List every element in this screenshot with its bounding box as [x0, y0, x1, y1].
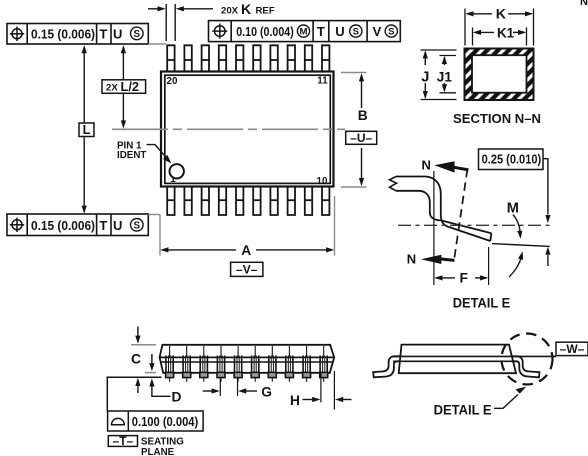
pin 10 lead (bottom row): [322, 187, 329, 216]
lead foot end cap: [490, 233, 491, 241]
package body (side profile): [399, 345, 516, 374]
PIN 1 IDENT leader arrow: [147, 145, 168, 159]
svg-text:–V–: –V–: [236, 262, 258, 276]
dimension L line: [83, 48, 85, 123]
svg-text:N: N: [407, 251, 416, 266]
seating plane line: [107, 376, 162, 378]
lead inner edge: [396, 191, 491, 233]
dimension H extension lines: [320, 373, 322, 403]
side view pin 8: [285, 346, 293, 382]
feature control frame FCF3 bottom-left: [7, 214, 148, 236]
svg-text:H: H: [290, 393, 300, 408]
svg-text:K: K: [496, 7, 507, 23]
package body (front view): [160, 345, 335, 373]
connector line FCF1 to K ref extension: [148, 43, 166, 45]
svg-text:IDENT: IDENT: [117, 150, 146, 161]
svg-text:10: 10: [317, 176, 328, 187]
side view pin 9: [303, 346, 311, 382]
svg-text:0.15 (0.006): 0.15 (0.006): [31, 27, 95, 42]
standoff upper arrow: [151, 354, 153, 364]
svg-text:0.25 (0.010): 0.25 (0.010): [482, 152, 542, 167]
svg-text:M: M: [507, 201, 519, 217]
dimension G right arrow: [245, 390, 257, 392]
-U- datum box: [346, 131, 377, 144]
section cut line N-N (dashed): [454, 169, 467, 261]
lead cross-section hatched ring: [465, 49, 534, 101]
pin 11 lead (top row): [322, 45, 329, 71]
right gull-wing lead: [510, 356, 540, 377]
side view pin 6: [251, 346, 259, 382]
pin 8 lead (bottom row): [288, 187, 295, 216]
svg-text:M: M: [300, 27, 308, 38]
dimension A extension lines: [159, 215, 161, 256]
svg-text:V: V: [373, 24, 382, 39]
-W- datum box: [556, 342, 588, 355]
side view pin 3: [200, 346, 208, 382]
svg-text:DETAIL E: DETAIL E: [453, 296, 511, 311]
dimension F extension lines: [433, 171, 435, 285]
lead outline (gull-wing bend, detail): [390, 177, 492, 242]
svg-text:0.10 (0.004): 0.10 (0.004): [236, 24, 294, 39]
side view pin 7: [268, 346, 276, 382]
dimension H right arrow: [340, 399, 352, 401]
feature control frame FCF2 top-middle: [209, 21, 401, 42]
pin 6 lead (bottom row): [253, 187, 260, 216]
side view pin 5: [234, 346, 242, 382]
FCF2 position symbol: [212, 24, 227, 39]
FCF3 position symbol: [10, 218, 24, 232]
pin 1 lead (bottom row): [167, 187, 174, 216]
svg-text:S: S: [134, 220, 141, 231]
pin 14 lead (top row): [270, 45, 277, 71]
body parting line upper: [160, 356, 335, 358]
lead outer edge: [396, 177, 490, 242]
svg-text:F: F: [460, 271, 468, 286]
dimension G extension lines: [219, 378, 221, 397]
body top extension line: [131, 344, 156, 346]
L label box: [79, 123, 94, 137]
pin 19 lead (top row): [184, 45, 191, 71]
svg-text:–U–: –U–: [350, 131, 372, 145]
dimension D lower arrow with leader: [152, 387, 171, 397]
svg-text:A: A: [241, 243, 251, 258]
svg-text:N: N: [580, 0, 588, 8]
pin 5 lead (bottom row): [236, 187, 243, 216]
svg-text:–W–: –W–: [560, 342, 585, 356]
pin 13 lead (top row): [288, 45, 295, 71]
2X L/2 label box: [102, 80, 146, 94]
-V- datum box: [231, 262, 263, 276]
svg-text:S: S: [134, 29, 141, 40]
svg-text:N: N: [422, 157, 431, 172]
detail E dashed circle: [502, 334, 553, 385]
svg-text:D: D: [172, 390, 182, 405]
pin 15 lead (top row): [253, 45, 260, 71]
svg-text:SEATING: SEATING: [141, 437, 184, 448]
FCF2 S modifier 2: [385, 25, 397, 37]
connector line FCF3 to A extension: [148, 214, 160, 216]
side view pin 1: [166, 346, 174, 382]
dimension H left arrow: [303, 399, 314, 401]
FCF3 S modifier: [131, 219, 144, 232]
svg-text:K1: K1: [497, 26, 515, 41]
N arrow bottom: [440, 259, 455, 261]
svg-text:DETAIL E: DETAIL E: [434, 402, 492, 417]
dimension J extension lines: [421, 49, 457, 51]
lead frame line lower: [393, 360, 518, 362]
datum T vertical connector: [106, 377, 108, 411]
svg-text:U: U: [113, 218, 122, 233]
svg-text:T: T: [99, 27, 107, 42]
svg-text:T: T: [99, 218, 107, 233]
svg-text:–T–: –T–: [113, 434, 134, 448]
svg-text:S: S: [388, 27, 395, 38]
bottom pins of package: [167, 187, 329, 216]
M angle leader arcs: [513, 215, 520, 234]
dimension K1 line with arrows: [475, 31, 495, 33]
dimension J1 line with arrows: [443, 58, 445, 66]
tilted foot plane line: [492, 244, 550, 247]
N arrow top: [452, 167, 469, 170]
0.25 (0.010) dimension box: [479, 149, 544, 170]
svg-text:G: G: [261, 384, 272, 399]
dimension B extension lines: [341, 72, 367, 74]
dimension K extension lines: [464, 9, 466, 46]
lead break-off jagged edge: [390, 177, 397, 191]
centerline of package (datum): [112, 128, 345, 130]
dimension C upper arrow: [137, 327, 139, 337]
svg-text:L/2: L/2: [121, 79, 140, 94]
left gull-wing lead: [373, 356, 402, 377]
side view pin 10: [320, 346, 328, 382]
pin 18 lead (top row): [202, 45, 209, 71]
pin 2 lead (bottom row): [184, 187, 191, 216]
side view pin 4: [217, 346, 225, 382]
pin 17 lead (top row): [219, 45, 226, 71]
svg-text:U: U: [113, 27, 122, 42]
pin tip extension line: [145, 372, 156, 374]
package body outline (top view): [161, 72, 334, 187]
pin 16 lead (top row): [236, 45, 243, 71]
svg-text:SECTION N–N: SECTION N–N: [453, 111, 541, 126]
FCF2 S modifier 1: [350, 25, 362, 37]
pin 7 lead (bottom row): [270, 187, 277, 216]
flatness symbol: [112, 418, 125, 424]
svg-text:11: 11: [317, 76, 328, 87]
svg-text:S: S: [353, 27, 360, 38]
svg-text:B: B: [358, 108, 368, 123]
pin 12 lead (top row): [305, 45, 312, 71]
svg-text:20: 20: [167, 76, 178, 87]
svg-text:J1: J1: [437, 70, 453, 85]
20X K REF right arrow: [183, 8, 213, 10]
flatness control frame: [108, 411, 204, 431]
svg-text:REF: REF: [256, 6, 275, 17]
body parting line lower: [161, 361, 334, 363]
svg-text:C: C: [131, 351, 141, 366]
lead frame line upper: [393, 355, 556, 357]
svg-text:20X: 20X: [221, 6, 239, 17]
pin 1 ident circle: [170, 164, 184, 178]
svg-text:J: J: [421, 70, 429, 86]
dimension K line with arrows: [467, 13, 492, 15]
pin 3 lead (bottom row): [202, 187, 209, 216]
FCF1 S modifier: [131, 27, 144, 40]
seating plane dash-dot line: [398, 224, 552, 226]
dimension 2X L/2 line: [122, 48, 124, 80]
dimension J1 extension lines: [440, 55, 457, 57]
dimension F line with arrows: [436, 277, 455, 279]
svg-text:L: L: [83, 122, 91, 137]
arrow up to flatness zone: [547, 255, 549, 266]
svg-text:0.15 (0.006): 0.15 (0.006): [31, 218, 95, 233]
pin 20 lead (top row): [167, 45, 174, 71]
top pins of package: [167, 45, 329, 71]
svg-text:0.100 (0.004): 0.100 (0.004): [132, 414, 199, 429]
dimension A line: [163, 249, 237, 251]
20X K REF left arrow: [148, 8, 160, 10]
pin 4 lead (bottom row): [219, 187, 226, 216]
dimension B line: [361, 76, 363, 109]
dimension 20X K REF extension lines: [165, 4, 167, 41]
pin 9 lead (bottom row): [305, 187, 312, 216]
package body inner outline: [165, 75, 330, 183]
lead cross-section inner rect: [472, 55, 527, 92]
svg-text:K: K: [241, 2, 252, 18]
-T- datum box: [108, 436, 137, 447]
dimension G left arrow: [203, 390, 213, 392]
leader from 0.25 box down to seating plane: [543, 159, 548, 215]
dimension C lower arrow: [137, 386, 139, 394]
dimension J line with arrows: [424, 52, 426, 65]
dimension K1 extension lines: [472, 28, 474, 46]
svg-text:PLANE: PLANE: [141, 447, 175, 456]
side view pin 2: [183, 346, 191, 382]
feature control frame FCF1 top-left: [7, 24, 148, 45]
FCF2 M modifier: [297, 25, 309, 37]
svg-text:2X: 2X: [106, 82, 118, 93]
svg-text:U: U: [335, 24, 344, 39]
FCF1 position symbol: [10, 27, 24, 41]
svg-text:T: T: [317, 24, 325, 39]
